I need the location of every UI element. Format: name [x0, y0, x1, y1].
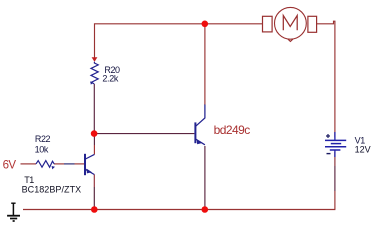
ground bar 1	[7, 215, 20, 217]
ground bar 2	[10, 218, 17, 220]
wire center vertical from top dot to Q2 collector	[204, 24, 206, 105]
node junction top (205,24)	[202, 21, 209, 28]
battery V1 plate long top	[325, 139, 346, 141]
transistor T1 collector lead	[86, 154, 95, 159]
wire T1 emitter down part 2	[93, 187, 95, 210]
resistor R20 end arrow blob	[90, 81, 93, 84]
motor M1 right brush box	[308, 16, 317, 32]
wire motor to right corner and down to battery	[317, 21, 335, 137]
wire Q2 emitter down to bottom rail	[204, 146, 206, 210]
ground top tick	[11, 202, 15, 204]
battery V1 bottom lead stub	[334, 150, 336, 157]
wire battery bottom stub to corner part 1	[334, 152, 336, 166]
wire R20 bottom lead down to node	[93, 84, 95, 134]
wire 6V source to R22	[21, 163, 37, 165]
transistor Q2 emitter arrow	[197, 139, 203, 144]
battery V1 minus sign	[327, 153, 331, 155]
ground bar 3	[13, 220, 15, 222]
wire bottom rail	[23, 209, 335, 211]
wire base rail from node to Q2	[94, 133, 194, 135]
node junction bottom center (205,209.5)	[202, 206, 209, 213]
svg-text:6V: 6V	[3, 160, 17, 172]
wire node down to T1 collector lower part	[93, 145, 95, 155]
battery V1 plate short 2	[330, 149, 341, 151]
wire R22 to T1 base (red-navy-red)	[54, 163, 64, 165]
transistor T1 emitter arrow	[87, 169, 92, 174]
svg-text:12V: 12V	[355, 145, 371, 155]
svg-text:R22: R22	[35, 134, 51, 144]
node junction base (94,134)	[91, 130, 98, 137]
motor M1 left brush box	[263, 16, 273, 32]
battery V1 plate long bottom	[325, 146, 346, 148]
wire T1 emitter down part 1	[93, 174, 95, 187]
node junction bottom left (94,209.5)	[91, 206, 98, 213]
wire top rail left segment	[95, 24, 206, 61]
svg-text:10k: 10k	[35, 145, 49, 155]
svg-text:BC182BP/ZTX: BC182BP/ZTX	[22, 184, 82, 194]
resistor R20 zigzag	[91, 62, 98, 84]
ground stem	[12, 203, 14, 216]
resistor R22 end arrow blob	[52, 166, 55, 169]
transistor Q2 emitter lead	[196, 139, 205, 145]
battery V1 top lead stub	[334, 132, 336, 140]
motor M1 letter M	[283, 16, 297, 31]
motor M1 body circle	[275, 7, 307, 39]
resistor R22 zigzag	[36, 161, 54, 168]
battery V1 plus sign	[326, 134, 330, 138]
transistor T1 emitter lead	[86, 169, 95, 174]
transistor Q2 collector lead	[196, 105, 205, 127]
wire top rail dot to motor	[205, 23, 263, 25]
resistor R20 current arrow	[92, 57, 98, 62]
svg-text:bd249c: bd249c	[214, 123, 251, 137]
motor M1 shaft notch at circle bottom	[288, 39, 293, 41]
wire battery bottom to corner part 2	[334, 166, 336, 191]
battery V1 plate short 1	[331, 143, 341, 145]
transistor T1 base bar	[84, 154, 86, 175]
svg-text:2.2k: 2.2k	[102, 74, 118, 84]
wire node down to T1 collector upper part	[93, 134, 95, 145]
transistor Q2 base bar	[194, 122, 196, 143]
wire battery bottom to corner part 3	[334, 191, 336, 210]
